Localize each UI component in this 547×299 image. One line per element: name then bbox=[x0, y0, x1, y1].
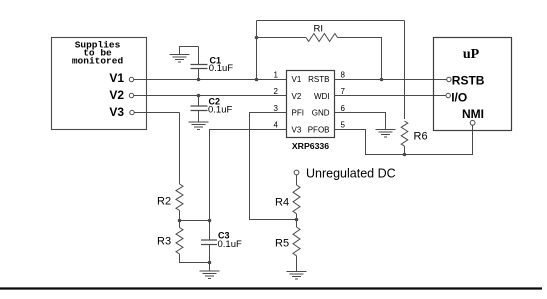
ground (C3) bbox=[200, 271, 220, 279]
svg-text:RI: RI bbox=[314, 24, 324, 35]
svg-text:R5: R5 bbox=[275, 238, 289, 250]
svg-text:4: 4 bbox=[274, 121, 279, 130]
svg-text:V1: V1 bbox=[292, 75, 302, 84]
svg-text:0.1uF: 0.1uF bbox=[218, 239, 242, 250]
svg-text:PFI: PFI bbox=[292, 109, 304, 118]
svg-text:Unregulated DC: Unregulated DC bbox=[306, 167, 396, 181]
svg-text:V2: V2 bbox=[109, 88, 124, 102]
junction R4-R5 bbox=[295, 218, 299, 222]
junction C3-R3 bottom bbox=[208, 261, 212, 265]
wire R5 to ground bbox=[296, 256, 298, 272]
junction R6-NMI wire bbox=[403, 153, 407, 157]
svg-text:V3: V3 bbox=[109, 105, 124, 119]
svg-text:NMI: NMI bbox=[462, 107, 484, 121]
svg-text:RSTB: RSTB bbox=[308, 75, 329, 84]
ground (C1) bbox=[170, 55, 190, 63]
resistor RI bbox=[306, 34, 338, 42]
svg-text:R2: R2 bbox=[157, 196, 171, 208]
wire V1 node up (left leg of loop) bbox=[256, 21, 258, 80]
wire top rail down to R6 bbox=[404, 21, 406, 120]
wire V2 to pin2 bbox=[134, 95, 287, 97]
wire R2 bottom bbox=[179, 211, 181, 221]
wire R3 bottom bbox=[180, 254, 210, 263]
wire top rail bbox=[257, 20, 405, 22]
svg-text:0.1uF: 0.1uF bbox=[209, 63, 233, 74]
svg-text:I/O: I/O bbox=[451, 91, 467, 105]
capacitor C2 bbox=[198, 96, 200, 107]
svg-text:R4: R4 bbox=[275, 197, 289, 209]
ground (pin6 GND) bbox=[376, 130, 396, 138]
wire pin8 to RSTB bbox=[335, 79, 447, 81]
svg-text:2: 2 bbox=[274, 87, 279, 96]
wire R4 bottom bbox=[296, 214, 298, 227]
wire pin5 to NMI bbox=[335, 125, 473, 154]
svg-text:V2: V2 bbox=[292, 92, 302, 101]
svg-text:R3: R3 bbox=[157, 236, 171, 248]
wire terminal to R4 bbox=[296, 175, 298, 185]
svg-text:uP: uP bbox=[463, 47, 480, 62]
wire RI left bbox=[257, 37, 307, 39]
ground (C2) bbox=[189, 122, 209, 130]
junction pin4 line bbox=[208, 219, 212, 223]
resistor R4 bbox=[293, 185, 300, 214]
node V3 terminal bbox=[130, 110, 134, 114]
wire RI right bbox=[338, 38, 382, 80]
capacitor C3 bbox=[201, 239, 217, 241]
Unregulated DC terminal bbox=[294, 170, 299, 175]
RSTB terminal bbox=[447, 77, 451, 81]
resistor R2 bbox=[176, 184, 183, 211]
wire V3 down to R2 bbox=[179, 113, 181, 185]
svg-text:RSTB: RSTB bbox=[452, 74, 485, 88]
svg-text:8: 8 bbox=[341, 71, 346, 80]
node V1 terminal bbox=[129, 77, 133, 81]
wire V3 horizontal bbox=[134, 112, 179, 114]
junction RI-loop bbox=[255, 36, 259, 40]
node V2 terminal bbox=[129, 93, 133, 97]
svg-text:5: 5 bbox=[341, 121, 346, 130]
junction C2-V2 bbox=[197, 94, 201, 98]
svg-text:R6: R6 bbox=[414, 131, 428, 143]
wire C1 to ground bbox=[180, 47, 199, 55]
svg-text:7: 7 bbox=[341, 87, 346, 96]
junction R2-R3 bbox=[178, 219, 182, 223]
IC U1 XRP6336 body bbox=[287, 71, 335, 138]
svg-text:V3: V3 bbox=[292, 125, 302, 134]
junction C1-V1 bbox=[197, 78, 201, 82]
resistor R5 bbox=[293, 227, 300, 256]
svg-text:GND: GND bbox=[312, 109, 330, 118]
ground (R5) bbox=[287, 272, 307, 280]
svg-text:PFOB: PFOB bbox=[308, 125, 330, 134]
NMI terminal bbox=[470, 120, 475, 125]
resistor R6 bbox=[401, 121, 408, 146]
svg-text:XRP6336: XRP6336 bbox=[292, 141, 329, 151]
wire pin6 to ground bbox=[335, 113, 386, 130]
wire R6 bottom bbox=[404, 146, 406, 154]
wire V1 to pin1 bbox=[134, 79, 287, 81]
junction loop-V1 bbox=[255, 78, 259, 82]
svg-text:WDI: WDI bbox=[314, 92, 330, 101]
svg-text:6: 6 bbox=[341, 104, 346, 113]
resistor R3 bbox=[176, 228, 183, 255]
supplies box bbox=[52, 38, 147, 130]
I/O terminal bbox=[446, 93, 450, 97]
wire pin4 down bbox=[210, 130, 287, 241]
capacitor C1 bbox=[198, 69, 200, 80]
wire R2R3 junction to pin4 line bbox=[180, 220, 210, 222]
svg-text:V1: V1 bbox=[109, 71, 124, 85]
svg-text:3: 3 bbox=[274, 104, 279, 113]
svg-text:0.1uF: 0.1uF bbox=[208, 105, 232, 116]
uP box bbox=[434, 38, 512, 131]
svg-text:1: 1 bbox=[274, 71, 279, 80]
wire pin7 to I/O bbox=[335, 95, 447, 97]
wire pin3 down to divider bbox=[250, 113, 297, 220]
svg-text:monitored: monitored bbox=[72, 56, 124, 67]
bottom rule bbox=[0, 287, 542, 289]
junction RI-pin8 bbox=[380, 78, 384, 82]
